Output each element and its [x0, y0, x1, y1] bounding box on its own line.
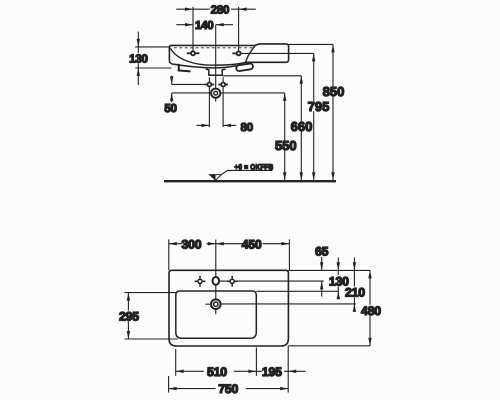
svg-text:140: 140: [195, 19, 213, 32]
dimension 660: [223, 76, 301, 180]
dimension 210: [353, 258, 355, 310]
plan outer body: [169, 270, 288, 346]
hidden rim edge (dashed): [174, 47, 253, 49]
bowl front inner arc: [170, 48, 245, 65]
drain circle front view: [211, 89, 220, 98]
dimension 480: [288, 270, 370, 345]
svg-text:850: 850: [323, 84, 345, 99]
svg-text:510: 510: [207, 365, 227, 379]
svg-text:660: 660: [291, 119, 313, 134]
dimension 510 / 195: [176, 346, 306, 393]
svg-text:450: 450: [242, 237, 262, 251]
drain plan view: [211, 299, 221, 309]
datum symbol: [210, 175, 222, 181]
dimension 750: [169, 376, 289, 393]
fixing hole left: [187, 51, 200, 55]
tap hole left: [195, 276, 206, 287]
tap hole right: [227, 276, 238, 287]
svg-text:130: 130: [129, 52, 147, 65]
dimension 140: [176, 24, 233, 26]
anchor hole extension lines (80 apart): [208, 77, 210, 127]
dimension 300 / 450: [169, 239, 290, 270]
svg-text:295: 295: [119, 310, 139, 324]
svg-text:80: 80: [241, 121, 253, 134]
svg-text:+0 = OKFFB: +0 = OKFFB: [235, 162, 274, 171]
svg-text:65: 65: [315, 245, 329, 259]
anchor hole right: [218, 83, 228, 87]
dimension 130 plan: [337, 258, 339, 298]
right wall bracket: [236, 63, 254, 71]
dimension 295: [125, 293, 178, 339]
bowl top edge extension: [256, 290, 338, 292]
plan centerline: [215, 240, 217, 277]
floor line: [164, 180, 336, 182]
dimension 280: [176, 7, 256, 51]
svg-text:50: 50: [164, 102, 176, 115]
datum note text: [235, 162, 274, 171]
tap hole center: [213, 277, 220, 285]
basin front view outer rim: [169, 44, 288, 62]
svg-text:480: 480: [361, 304, 381, 318]
dimension 130 left: [135, 32, 171, 85]
svg-text:210: 210: [345, 286, 365, 300]
drain outlet trapezoid: [206, 69, 226, 75]
svg-text:280: 280: [211, 3, 229, 16]
centerline front view: [215, 25, 217, 89]
svg-text:550: 550: [275, 138, 297, 153]
dimension 50 left: [172, 76, 285, 103]
basin apron bottom curve: [169, 62, 236, 68]
dimension 65: [321, 257, 323, 297]
fixing hole right: [232, 51, 240, 55]
anchor hole left: [205, 83, 215, 87]
dimension 795: [313, 53, 315, 180]
leader from basin top right to 850 line: [289, 43, 333, 45]
svg-text:300: 300: [182, 237, 202, 251]
plan inner bowl: [176, 291, 256, 338]
svg-text:750: 750: [218, 382, 238, 396]
svg-text:195: 195: [262, 365, 282, 379]
rim fold S-curve: [246, 46, 255, 63]
dimension 80: [196, 124, 236, 126]
svg-text:795: 795: [308, 99, 330, 114]
leader from right fixing hole to 795 line: [241, 52, 314, 54]
dimension 550: [284, 93, 286, 180]
tap hole leader line: [219, 280, 323, 282]
dimension 850: [332, 44, 334, 180]
left wall bracket: [178, 64, 191, 72]
drain leader to 210 dim: [221, 303, 356, 305]
